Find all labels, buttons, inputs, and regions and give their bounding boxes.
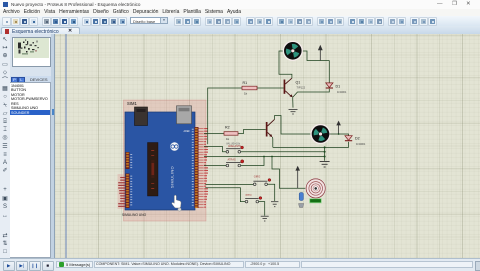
junction dots [263, 133, 339, 157]
svg-text:1k: 1k [226, 137, 230, 141]
usb connector [135, 107, 148, 126]
left tool column [0, 34, 11, 258]
svg-text:D2: D2 [355, 136, 360, 140]
wire R2 pin lead [204, 130, 266, 134]
svg-text:1N4001: 1N4001 [356, 142, 366, 146]
svg-text:Q1: Q1 [296, 80, 301, 84]
node vertical wire to ground [324, 147, 326, 160]
wire Q2 emitter to ground rail [271, 137, 274, 147]
resistor R1 [242, 86, 257, 90]
wire Q1 emitter to ground [292, 97, 294, 107]
atmega chip [148, 143, 159, 197]
button ADELANTE [226, 145, 243, 153]
wire pin to button4 [205, 188, 245, 202]
arduino logo [170, 142, 179, 151]
title bar [0, 0, 480, 10]
svg-text:D1: D1 [336, 84, 341, 88]
sheet edge line [65, 34, 67, 258]
power arrow VCC motor1 [318, 45, 323, 61]
wire motor1 right to D1 top [302, 51, 330, 83]
transistor Q1 TIP122 [284, 78, 306, 97]
motor M2 [310, 124, 330, 144]
splitter [51, 34, 55, 258]
mouse hand cursor [172, 195, 181, 208]
status bar [0, 258, 480, 271]
resistor R2 [224, 132, 238, 136]
button GIRO [253, 175, 270, 185]
svg-text:ATRAS: ATRAS [228, 159, 236, 162]
motor M1 [283, 41, 303, 61]
svg-text:ADELANTE: ADELANTE [228, 145, 242, 148]
svg-text:GIRO: GIRO [254, 175, 260, 178]
schematic canvas [55, 34, 480, 258]
wire pin to button1 [204, 147, 226, 152]
wire pin to button2 [204, 165, 226, 167]
mounting hole [178, 208, 181, 211]
branch to button2 [241, 157, 264, 166]
right pin header [195, 127, 199, 208]
wire motor2 right to D2 [325, 134, 349, 147]
wire button4 to ground [259, 202, 265, 216]
long wire from arduino pin [204, 156, 325, 158]
left panel [10, 34, 51, 258]
svg-text:SIMULINO UNO: SIMULINO UNO [122, 213, 147, 217]
overview window [12, 37, 51, 68]
svg-text:1N4001: 1N4001 [337, 90, 347, 94]
devices header [10, 76, 51, 82]
svg-text:SIMULINO: SIMULINO [170, 166, 175, 188]
wire pin to button3 [205, 183, 253, 185]
svg-text:PITO: PITO [246, 194, 252, 197]
ground under motor2 node [320, 162, 330, 168]
power arrow VCC motor2 [336, 121, 341, 134]
long wire from button1 terminals [241, 151, 325, 153]
svg-text:SIM1: SIM1 [127, 101, 137, 106]
selection highlight around Arduino [124, 100, 207, 221]
svg-text:R2: R2 [225, 125, 230, 129]
menu bar [0, 9, 480, 16]
button ATRAS [226, 159, 244, 167]
wire motor1 left to Q1 collector [279, 51, 292, 78]
sounder selected label [309, 198, 322, 203]
svg-text:TIP122: TIP122 [297, 86, 306, 90]
ground button4 [261, 216, 269, 221]
svg-text:1k: 1k [244, 91, 248, 95]
tab bar [0, 26, 480, 35]
probe base ground [299, 204, 304, 208]
power jack [177, 106, 192, 124]
power arrow at sounder [295, 166, 300, 189]
button PITO [245, 194, 262, 203]
devices list [10, 82, 51, 258]
left pin headers [126, 152, 130, 169]
transistor Q2 TIP122 [266, 119, 275, 137]
diode D2 [345, 136, 366, 146]
arduino board SIM1 [118, 101, 208, 217]
svg-text:AREF: AREF [184, 130, 191, 133]
ground below Q1 [289, 109, 298, 114]
wire D1 bottom to Q1 emitter [293, 89, 330, 98]
diode D1 [326, 83, 347, 94]
toolbar [0, 16, 480, 28]
wire Q2 collector to motor2 [275, 116, 312, 135]
ground rail from Q2 emitter [273, 146, 325, 148]
wire button3 to ground [267, 184, 274, 201]
ground button3 [271, 202, 278, 207]
svg-text:R1: R1 [243, 81, 248, 85]
sounder LS1 [305, 178, 326, 199]
wire pin to R1 and R1 to Q1 base [208, 88, 284, 144]
branch to sounder [272, 157, 306, 189]
probe widget [299, 193, 303, 201]
